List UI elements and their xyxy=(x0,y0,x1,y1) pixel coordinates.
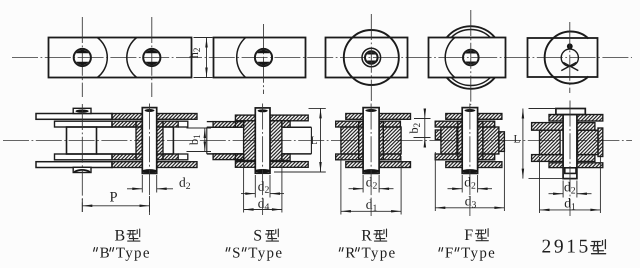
svg-text:L: L xyxy=(513,133,520,145)
2915 cotter pin head dot xyxy=(567,43,573,49)
dimension d2 of F section xyxy=(461,175,463,193)
B section right outer plate bottom sectioned xyxy=(112,162,142,168)
2915 section outer plate top sectioned xyxy=(549,115,563,122)
svg-text:Type: Type xyxy=(361,246,396,262)
R pin hole xyxy=(365,51,378,64)
dimension d2 of B section xyxy=(141,175,143,193)
dimension d3 xyxy=(434,152,436,211)
S section plate bottom sectioned xyxy=(235,162,255,168)
B section right bushing walls xyxy=(136,121,142,160)
dimension h2 xyxy=(194,37,213,39)
S section pin xyxy=(255,108,270,173)
R section inner plate top sectioned xyxy=(336,121,363,127)
S section plate top sectioned xyxy=(235,115,255,121)
bottom row horizontal centerline xyxy=(3,140,632,142)
R section pin xyxy=(363,108,379,174)
B section left bushing xyxy=(67,127,97,154)
dimension P xyxy=(81,199,83,212)
dimension L of 2915 section xyxy=(529,108,556,110)
R bushing circle xyxy=(362,48,381,67)
F roller circle arcs xyxy=(451,29,490,37)
F section inner plate bottom sectioned xyxy=(435,154,462,160)
B section left inner plate top xyxy=(55,121,113,127)
dimension d4 xyxy=(243,163,245,213)
R section inner plate bottom sectioned xyxy=(336,154,363,160)
2915-type link plate top view xyxy=(528,38,598,77)
2915 pin centerline xyxy=(569,101,571,217)
F section outer plate top sectioned xyxy=(446,114,462,120)
S section plate extension top-left xyxy=(207,121,213,123)
S plate hole xyxy=(255,49,272,66)
dimension d1 of 2915 section xyxy=(539,157,541,213)
svg-text:L: L xyxy=(310,135,317,147)
dimension d2 of 2915 section xyxy=(562,181,564,198)
svg-text:R: R xyxy=(361,228,373,245)
svg-text:Type: Type xyxy=(248,246,283,262)
svg-text:Type: Type xyxy=(116,246,151,262)
B section left outer plate bottom xyxy=(36,162,112,168)
F section inner plate top sectioned xyxy=(435,121,462,127)
2915 centerline xyxy=(569,22,571,93)
2915 section inner plate top sectioned xyxy=(532,123,564,131)
F flange outer circle arcs xyxy=(447,26,495,37)
svg-text:B: B xyxy=(114,228,126,245)
F pin centerline xyxy=(469,104,471,217)
R section roller right xyxy=(383,127,401,154)
F section pin xyxy=(462,108,477,174)
2915 section roller right xyxy=(578,130,599,154)
R section bushing walls xyxy=(359,121,363,160)
S section adjacent plate top-left xyxy=(213,122,244,128)
B right pin centerline xyxy=(149,104,151,216)
F waist arc xyxy=(445,38,455,78)
B section right pin xyxy=(142,108,156,174)
2915 section outer plate bottom sectioned xyxy=(549,163,563,168)
svg-text:P: P xyxy=(109,189,117,205)
B section right inner plate top sectioned xyxy=(112,121,136,127)
B section middle band xyxy=(97,126,174,128)
R roller circle xyxy=(344,30,399,85)
dimension b1 xyxy=(187,127,212,129)
2915 cotter pin ring xyxy=(561,49,578,66)
B plate waist arc left xyxy=(97,38,107,78)
svg-text:R: R xyxy=(345,246,356,262)
F-type link plate top view xyxy=(429,38,506,78)
R section roller left xyxy=(341,127,359,154)
svg-text:S: S xyxy=(232,246,242,262)
S plate hole centerline xyxy=(263,24,265,94)
B plate waist arc right xyxy=(127,38,137,78)
S-type link plate top view xyxy=(214,38,306,78)
B left pin centerline xyxy=(81,104,83,212)
R pin centerline xyxy=(370,104,372,217)
dimension b2 xyxy=(414,118,431,120)
B plate hole centerline left xyxy=(81,17,83,97)
B-type link plate top view xyxy=(49,38,192,78)
2915 roller circle arc xyxy=(545,32,589,84)
F centerline xyxy=(470,10,472,105)
S section bushing flange tabs xyxy=(235,121,243,128)
S section adjacent plate bottom-left xyxy=(213,154,244,160)
2915 section inner plate bottom sectioned xyxy=(532,155,564,162)
svg-text:Type: Type xyxy=(461,246,496,262)
S plate waist arc xyxy=(237,38,246,78)
2915 section roller left xyxy=(540,130,561,154)
B plate hole right xyxy=(143,49,160,66)
F section roller left with flange xyxy=(441,127,457,154)
S section middle band left xyxy=(207,126,244,128)
dimension d1 of R section xyxy=(340,156,342,215)
S section bushing walls xyxy=(244,121,256,161)
F section bushing walls xyxy=(458,121,462,160)
svg-text:F: F xyxy=(464,227,474,244)
svg-text:2915: 2915 xyxy=(541,237,590,258)
R centerline xyxy=(370,14,372,101)
S section middle band right xyxy=(282,126,312,128)
2915 section pin with head and cotter slot xyxy=(563,115,577,179)
svg-text:S: S xyxy=(253,228,263,245)
B section right outer plate top sectioned xyxy=(112,114,142,120)
R section outer plate top sectioned xyxy=(346,114,363,120)
B section right inner plate bottom sectioned xyxy=(112,154,136,160)
dimension d2 of S section xyxy=(254,175,256,198)
svg-text:F: F xyxy=(445,246,455,262)
B section left outer plate top xyxy=(36,114,112,120)
F section roller right with flange xyxy=(483,127,499,154)
R section outer plate bottom sectioned xyxy=(346,162,363,168)
dimension d2 of R section xyxy=(362,175,364,193)
dimension L of S section xyxy=(309,107,326,109)
S pin centerline xyxy=(262,104,264,216)
F pin hole xyxy=(463,50,479,66)
B plate hole left xyxy=(74,49,91,66)
svg-text:B: B xyxy=(100,246,111,262)
R-type link plate top view xyxy=(326,38,408,78)
2915 section flange bar right xyxy=(598,128,603,157)
B section left inner plate bottom xyxy=(55,154,113,160)
2915 cotter pin legs xyxy=(561,62,576,70)
top row horizontal centerline xyxy=(12,57,632,59)
B section left pin bottom cap xyxy=(73,167,91,172)
F section outer plate bottom sectioned xyxy=(446,162,462,168)
B section left pin top cap xyxy=(73,108,91,113)
B plate hole centerline right xyxy=(151,17,153,97)
